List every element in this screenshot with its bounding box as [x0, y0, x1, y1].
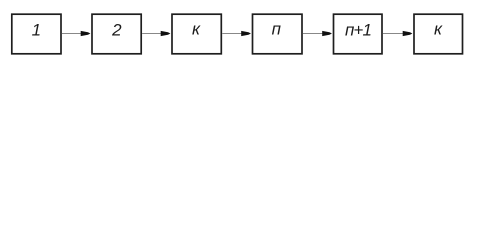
arrow 1 wire [62, 33, 82, 35]
arrow 1 head [81, 31, 91, 36]
svg-text:1: 1 [32, 21, 41, 40]
svg-text:2: 2 [111, 21, 122, 40]
arrow 3 head [241, 31, 251, 36]
svg-text:к: к [434, 20, 443, 39]
svg-text:к: к [192, 20, 201, 39]
block 4 (п) [253, 14, 303, 54]
block 5 (п+1) [334, 14, 383, 54]
arrow 3 wire [222, 33, 242, 35]
arrow 5 wire [383, 33, 404, 35]
svg-text:п: п [272, 20, 282, 39]
block 6 (к) [414, 14, 463, 54]
arrow 4 head [322, 31, 332, 36]
arrow 2 wire [142, 33, 162, 35]
svg-text:п+1: п+1 [345, 21, 371, 40]
arrow 2 head [161, 31, 171, 36]
arrow 5 head [403, 31, 413, 36]
block 1 [12, 14, 61, 54]
block 3 (к) [172, 14, 221, 54]
arrow 4 wire [303, 33, 324, 35]
block 2 [92, 14, 141, 54]
